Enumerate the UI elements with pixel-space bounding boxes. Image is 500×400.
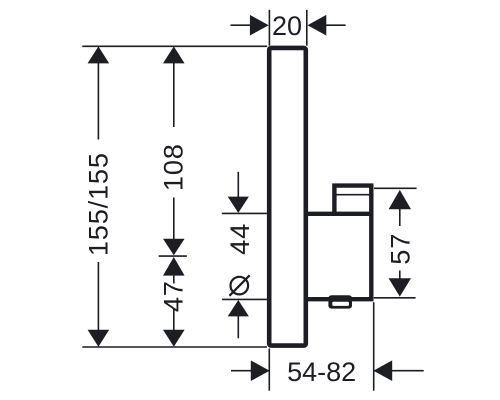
47 dim line (173, 272, 175, 284)
108/47 tick (159, 255, 187, 257)
svg-text:57: 57 (385, 233, 416, 265)
handle cap inner line (333, 194, 372, 196)
svg-text:44: 44 (224, 223, 255, 255)
54-82 tails (231, 370, 251, 372)
plate outline (escutcheon side view) (269, 48, 306, 346)
20 arrow left (250, 15, 269, 36)
44 tick top (222, 212, 267, 214)
57 dim line (399, 207, 401, 227)
20 dim tails (231, 24, 251, 26)
155/155 arrow top (88, 46, 110, 63)
20 dim extension left (268, 10, 270, 46)
diameter symbol (229, 275, 249, 296)
dimension texts (83, 11, 416, 387)
155/155 arrow bottom (88, 330, 110, 347)
svg-text:47: 47 (158, 280, 189, 312)
20 dim extension right (306, 10, 308, 46)
44 tick bottom (222, 298, 267, 300)
47 arrow top (up at tick) (163, 257, 185, 276)
57 arrow down (389, 278, 411, 296)
44 arrow up (228, 300, 249, 316)
54-82 arrow right side (373, 360, 392, 381)
bottom notch (328, 295, 352, 308)
handle cap box (306, 186, 371, 300)
108 arrow bottom (down at tick) (163, 239, 185, 255)
top extension line (82, 45, 267, 47)
bottom extension line (82, 346, 267, 348)
54-82 extension left (268, 349, 270, 391)
108 dim line (173, 61, 175, 127)
valve body and handle outline (306, 186, 371, 300)
svg-text:108: 108 (158, 143, 189, 191)
108 arrow top (163, 46, 185, 63)
54-82 extension right (373, 302, 375, 391)
57 extension top (374, 187, 417, 189)
arrows (88, 15, 411, 381)
44 dim line (237, 172, 239, 198)
svg-text:20: 20 (272, 11, 302, 41)
54-82 arrow left side (251, 360, 270, 381)
155/155 dim line (97, 61, 99, 140)
body top edge (306, 212, 371, 216)
svg-text:54-82: 54-82 (287, 357, 356, 387)
20 arrow right (308, 15, 327, 36)
svg-text:155/155: 155/155 (83, 152, 114, 256)
57 arrow up (389, 190, 411, 209)
57 extension bottom (374, 297, 416, 299)
47 arrow bottom (163, 330, 185, 347)
44 arrow down (228, 197, 249, 213)
